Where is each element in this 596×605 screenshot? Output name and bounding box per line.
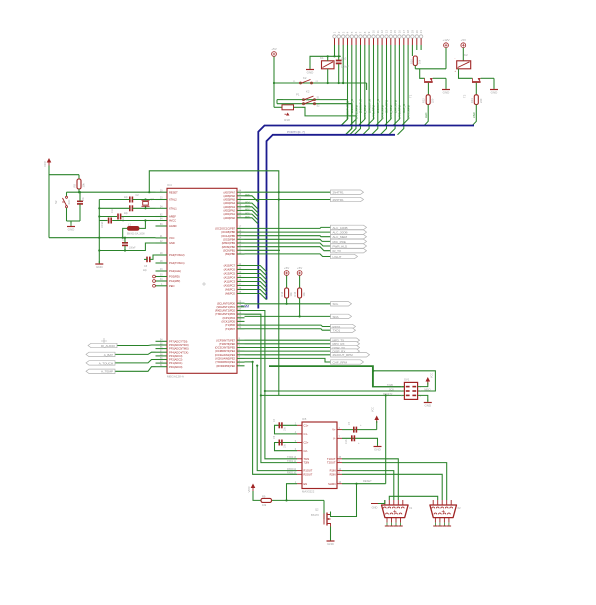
net flag SCL — [331, 302, 352, 306]
stub gnd s2 — [70, 221, 72, 224]
wire PD7 to flag — [245, 329, 331, 330]
svg-text:+5V: +5V — [461, 38, 466, 42]
svg-text:10nF: 10nF — [123, 216, 125, 222]
svg-text:16: 16 — [398, 30, 402, 34]
svg-text:10k: 10k — [417, 59, 421, 64]
svg-text:PG0(RD): PG0(RD) — [169, 275, 180, 279]
svg-text:Q2: Q2 — [315, 508, 319, 512]
svg-text:K2: K2 — [464, 53, 468, 57]
wire JP1 pin8 to PORTA bus — [359, 45, 365, 126]
wire JP1 pin1 to +5V node — [334, 45, 336, 56]
svg-text:R12: R12 — [422, 98, 426, 103]
wire aref right — [122, 216, 156, 218]
svg-text:K2: K2 — [303, 76, 307, 80]
svg-text:LIGHT: LIGHT — [333, 255, 342, 259]
svg-text:R18: R18 — [284, 118, 290, 122]
capacitor C7 — [353, 427, 355, 433]
junction MISO loop — [372, 370, 374, 372]
svg-text:SV1: SV1 — [404, 378, 410, 382]
PA bus ripup wires — [245, 194, 259, 225]
svg-text:V+: V+ — [332, 428, 336, 432]
capacitor C12 — [108, 218, 110, 224]
trimmer R18 — [282, 105, 294, 110]
wire R2IN to X2 — [342, 474, 442, 500]
wire K1 coil bottom — [327, 69, 329, 83]
svg-text:220: 220 — [479, 98, 483, 103]
junction Q2 drain / SHDN — [355, 483, 357, 485]
svg-text:(AD4)PA4: (AD4)PA4 — [224, 201, 236, 205]
svg-text:GND: GND — [96, 265, 104, 269]
wire JP1 pin12 to PORTA bus — [376, 45, 382, 126]
junction rail aref — [98, 215, 100, 217]
net labels on connector wires — [346, 99, 411, 119]
wire C6 bottom — [79, 204, 81, 221]
connector SV1 pads — [401, 387, 422, 398]
svg-text:T2OUT: T2OUT — [327, 461, 336, 465]
net flag ALC_20DB — [331, 230, 367, 234]
wire X1 pin1 to GND — [378, 500, 385, 504]
wire down to GND — [445, 78, 447, 88]
IC4 PF pins — [156, 339, 189, 369]
connector X1 DSUB9 top pins — [385, 500, 403, 505]
wire left rail — [98, 200, 100, 264]
wire JP1 pin16 to PORTA bus — [393, 45, 399, 126]
svg-text:SHDN: SHDN — [328, 482, 335, 486]
svg-text:220: 220 — [431, 98, 435, 103]
wire row to +12V drop — [415, 68, 446, 70]
svg-text:K1: K1 — [306, 98, 310, 102]
wire PB0 LIGHT — [245, 254, 331, 257]
svg-text:PF1(ADC1): PF1(ADC1) — [169, 361, 183, 365]
wire R18 to switch K3 — [294, 106, 303, 108]
svg-text:GND: GND — [68, 228, 76, 232]
wire +5V to K2 coil — [462, 48, 464, 61]
wire R10 bottom — [414, 66, 416, 69]
net flag TXD1 — [331, 328, 356, 332]
wire XTAL1 row — [132, 207, 155, 209]
svg-text:PF7(ADC7/TDI): PF7(ADC7/TDI) — [169, 339, 187, 343]
stub q1t — [145, 199, 147, 202]
wire C10 bottom — [338, 64, 340, 83]
+5V supply symbol P+1 — [272, 52, 277, 57]
wire RESET row — [67, 191, 156, 193]
svg-text:K2: K2 — [306, 90, 310, 94]
transistor T2 — [472, 81, 481, 83]
svg-text:(A14)PC6: (A14)PC6 — [224, 268, 236, 272]
wire vcc arrow stem — [376, 421, 378, 430]
net flag ALC_10DB — [331, 225, 367, 229]
svg-text:2N2OUT_RPM: 2N2OUT_RPM — [333, 353, 354, 357]
wire reset net into row — [278, 392, 280, 395]
svg-text:(ICP3/INT7)PE7: (ICP3/INT7)PE7 — [216, 338, 235, 342]
svg-text:TXD1: TXD1 — [287, 460, 294, 463]
wire PE5 to flag — [245, 347, 331, 349]
relay K1 coil — [322, 61, 335, 69]
net flag A_TEMP — [86, 369, 115, 373]
svg-text:(A10)PC2: (A10)PC2 — [224, 284, 236, 288]
capacitor C10 — [336, 60, 342, 62]
junction reset at IC — [148, 191, 150, 193]
capacitor C9 — [122, 242, 128, 244]
wire C3 left — [99, 207, 130, 209]
svg-text:TX2B: TX2B — [387, 384, 393, 387]
svg-text:+5V: +5V — [297, 266, 302, 270]
svg-text:T2: T2 — [463, 94, 467, 98]
junction PE0 branch — [256, 365, 258, 367]
connector SV1 body — [404, 382, 417, 399]
svg-text:(ICP1)PD4: (ICP1)PD4 — [222, 316, 235, 320]
svg-text:AVCC: AVCC — [169, 219, 176, 223]
capacitor C6 — [77, 200, 83, 202]
capacitor C4 — [278, 422, 280, 428]
svg-text:LAY4_RPM: LAY4_RPM — [380, 104, 384, 119]
svg-text:12: 12 — [380, 30, 384, 34]
wire avcc mid — [112, 220, 145, 222]
junction rail C3 — [98, 207, 100, 209]
svg-text:RAF: RAF — [68, 199, 71, 204]
wire to T1 collector — [420, 69, 425, 79]
svg-text:R13: R13 — [470, 98, 474, 103]
resistor R8 — [77, 179, 81, 189]
wire to trimmer R18 — [274, 106, 282, 108]
svg-text:(MOSI)PB2: (MOSI)PB2 — [222, 245, 236, 249]
wire JP1 pin10 to PORTA bus — [367, 45, 373, 126]
net flag ALC_MEM — [331, 235, 367, 239]
+5V pullup supply 1 — [284, 271, 289, 276]
svg-text:(OC2/OC1C)PB7: (OC2/OC1C)PB7 — [215, 227, 235, 231]
svg-text:(RXD0/PDI)PE0: (RXD0/PDI)PE0 — [216, 364, 235, 368]
stub q1b — [145, 206, 147, 208]
wire Q2 source — [330, 527, 332, 541]
wire PD6 to flag — [245, 325, 331, 326]
svg-text:R2OUT: R2OUT — [304, 472, 313, 476]
svg-text:10k: 10k — [289, 292, 293, 297]
capacitor C5 — [278, 440, 280, 446]
switch S1 — [303, 99, 305, 101]
svg-text:SDA: SDA — [333, 315, 339, 319]
wire JP1 pin21 stub — [420, 45, 422, 50]
switch S2 — [66, 196, 68, 198]
wire T1 base down — [427, 83, 429, 95]
svg-text:(A9)PC1: (A9)PC1 — [225, 288, 236, 292]
svg-text:OUT_RPM: OUT_RPM — [385, 99, 389, 113]
wire S2 top — [66, 192, 68, 196]
junction c9/gnd row — [124, 249, 126, 251]
svg-text:CHF_RPM: CHF_RPM — [333, 360, 348, 364]
svg-text:PF2(ADC2): PF2(ADC2) — [169, 358, 183, 362]
wire PE4 to flag — [245, 350, 331, 352]
svg-text:IR_AUDIO: IR_AUDIO — [101, 344, 116, 348]
svg-text:PF0(ADC0): PF0(ADC0) — [169, 365, 183, 369]
wire R8 bottom — [78, 189, 80, 192]
net flag IR_TX — [331, 249, 367, 253]
svg-text:GND: GND — [491, 91, 499, 95]
wire T1OUT to X1 — [342, 459, 398, 500]
svg-text:ZAR: ZAR — [472, 112, 476, 118]
wire SCK row to SV1 pin3 — [265, 390, 405, 392]
svg-text:R1OUT: R1OUT — [304, 469, 313, 473]
svg-text:C1+: C1+ — [304, 423, 309, 427]
svg-text:PG4(TOSC1): PG4(TOSC1) — [169, 261, 185, 265]
junction reset2 branch — [260, 394, 262, 396]
net flag IR_AUDIO — [88, 343, 117, 347]
wire JP1 pin4 to PORTA bus — [341, 45, 347, 126]
net flag MP3_TX — [331, 338, 360, 342]
wire S2 bottom — [66, 208, 68, 221]
svg-text:P1: P1 — [296, 93, 300, 97]
IC4 PB pins — [215, 226, 244, 256]
wire PE3 wide flag — [245, 354, 331, 356]
wire JP1 pin19 to R10 — [411, 45, 413, 56]
junction K1 bottom / row83 — [327, 82, 329, 84]
IC4 PA pins — [224, 190, 245, 220]
svg-text:VCC: VCC — [169, 236, 175, 240]
bus PORTA horizontal+vertical — [258, 126, 474, 309]
svg-text:+12V: +12V — [442, 38, 449, 42]
wire R8 top — [78, 175, 80, 179]
svg-text:SCK: SCK — [389, 388, 394, 391]
wire aref left — [99, 216, 117, 218]
junction K1 top — [327, 55, 329, 57]
wire JP1 pin2 to K1 node — [338, 45, 340, 56]
wire T2 emitter to GND — [481, 77, 494, 79]
wire PE0 vertical to R1OUT — [257, 366, 297, 471]
svg-text:2N4OUT_R: 2N4OUT_R — [367, 99, 371, 113]
svg-text:(A12)PC4: (A12)PC4 — [224, 276, 236, 280]
svg-text:S2: S2 — [54, 200, 58, 204]
svg-text:(TXD0/PDO)PE1: (TXD0/PDO)PE1 — [215, 360, 235, 364]
relay contact K2 row1 — [300, 82, 302, 84]
transistor Q2 BS170 — [323, 514, 325, 525]
junction pin2 top row — [338, 55, 340, 57]
svg-text:T1: T1 — [409, 94, 413, 98]
wire L1 left — [123, 228, 128, 237]
svg-text:K1: K1 — [320, 56, 324, 60]
wire pullup2 top — [299, 276, 301, 288]
svg-text:VCC: VCC — [431, 373, 434, 378]
wire T2 emitter down — [493, 78, 495, 88]
net flag SDA — [331, 314, 352, 318]
IC4 origin cross — [202, 282, 206, 286]
+12V supply symbol — [444, 43, 449, 48]
jog switch rows — [276, 100, 278, 104]
wire pullup1 top — [286, 276, 288, 288]
wire RESET2 row to SV1 pin5 — [261, 394, 405, 396]
junction sck branch — [264, 390, 266, 392]
wire switch row S1 — [283, 99, 347, 101]
svg-text:2N5TR1: 2N5TR1 — [333, 198, 345, 202]
svg-text:R10: R10 — [409, 59, 413, 64]
wire R1IN to X1 — [342, 471, 394, 500]
wire avcc left — [99, 220, 107, 222]
wire to GND S2 — [67, 220, 81, 222]
wire JP1 pin11 to PORTC bus — [372, 45, 378, 135]
svg-text:R15: R15 — [293, 291, 297, 296]
resistor R15 — [298, 288, 302, 298]
wire gnd pin row — [125, 243, 156, 251]
svg-text:TXD1: TXD1 — [333, 329, 341, 333]
svg-text:PG2(ALE): PG2(ALE) — [169, 269, 181, 273]
connector JP1 pin numbers — [333, 30, 424, 34]
svg-text:R14: R14 — [280, 291, 284, 296]
net flag MP3_RX — [331, 342, 360, 346]
resistor R10 — [413, 56, 417, 66]
connector X1 DSUB9 pin bumps — [383, 507, 404, 514]
svg-text:AGND: AGND — [169, 224, 177, 228]
svg-text:SCL: SCL — [333, 302, 339, 306]
wire JP1 pin13 to PORTC bus — [380, 45, 386, 135]
IC4 left pins — [156, 189, 185, 288]
wire PE1 vertical to R2OUT — [245, 362, 298, 474]
svg-text:GND: GND — [372, 506, 378, 510]
svg-text:C13: C13 — [345, 439, 348, 444]
IC4 PE pins — [215, 338, 245, 368]
svg-text:AREF: AREF — [169, 215, 176, 219]
net flag LIGHT — [331, 254, 358, 258]
svg-text:(XCK0/AIN0)PE2: (XCK0/AIN0)PE2 — [215, 357, 235, 361]
svg-text:R1IN: R1IN — [330, 469, 336, 473]
wire C2 loop — [275, 443, 298, 451]
svg-text:GND: GND — [374, 448, 382, 452]
svg-text:(SCK)PB1: (SCK)PB1 — [223, 248, 236, 252]
svg-text:CHF_RPM: CHF_RPM — [393, 99, 397, 113]
svg-text:RESET: RESET — [363, 479, 372, 483]
wire L1 right — [139, 221, 145, 229]
capacitor C8 tosc — [146, 257, 148, 263]
wire C2 left — [99, 199, 130, 201]
junction c9 top — [124, 237, 126, 239]
wire EN — [287, 484, 298, 501]
wire SCL row — [245, 315, 331, 317]
wire A_TEMP — [115, 367, 156, 372]
svg-text:2N5OUT_R: 2N5OUT_R — [376, 99, 380, 113]
junction +5V / switch row — [273, 82, 275, 84]
svg-text:(T1)PD6: (T1)PD6 — [225, 323, 235, 327]
wire C1 loop — [275, 425, 298, 434]
connector X2 DSUB9 — [430, 505, 457, 518]
svg-text:ALC_MEM: ALC_MEM — [333, 235, 348, 239]
wire JP1 pin18 to PORTA bus — [402, 45, 408, 126]
switch S2 contact — [303, 103, 305, 105]
net flag RXD1 — [331, 324, 356, 328]
wire JP1 pin14 to PORTA bus — [385, 45, 391, 126]
wire SV1 vcc — [418, 383, 428, 387]
svg-text:(XCK1)PD5: (XCK1)PD5 — [221, 320, 235, 324]
wire A_BAT — [115, 352, 156, 354]
svg-text:(OC1A)PB5: (OC1A)PB5 — [221, 234, 235, 238]
wire +12V down — [445, 48, 447, 69]
svg-text:XTAL1: XTAL1 — [169, 206, 177, 210]
ground GND near K1 — [309, 67, 311, 70]
svg-text:(OC0)PB4: (OC0)PB4 — [223, 237, 236, 241]
wire +5V down to R18 — [273, 83, 275, 107]
net flag DISP_TX — [331, 345, 360, 349]
svg-text:MEGA128-A: MEGA128-A — [167, 375, 184, 379]
svg-text:ALC_10DB: ALC_10DB — [333, 226, 348, 230]
junction SCL pullup — [299, 315, 301, 317]
svg-text:PORTC[0..7]: PORTC[0..7] — [287, 130, 305, 134]
svg-text:2N3OUT_R: 2N3OUT_R — [359, 99, 363, 113]
wire JP1 pin9 to PORTC bus — [363, 45, 369, 135]
wire c9 bottom — [99, 246, 125, 251]
junction C10 / row83 — [338, 82, 340, 84]
svg-text:10k: 10k — [82, 183, 86, 188]
svg-text:(SCL/INT0)PD0: (SCL/INT0)PD0 — [217, 301, 236, 305]
svg-text:(SS)PB0: (SS)PB0 — [225, 252, 236, 256]
svg-text:IR_TX: IR_TX — [333, 249, 342, 253]
PC bus ripup wires — [245, 266, 267, 300]
svg-text:C11: C11 — [111, 208, 114, 213]
svg-text:C2+: C2+ — [304, 441, 309, 445]
wire JP1 pin3 down to switch row — [342, 45, 344, 83]
wire JP1 pin15 to PORTC bus — [389, 45, 395, 135]
svg-text:BNX01-SA_1608: BNX01-SA_1608 — [127, 233, 145, 236]
connector X2 DSUB9 bottom pins — [433, 518, 451, 526]
connector JP1 pin pads — [333, 35, 423, 45]
net flag 2N2OUT_RPM — [331, 353, 370, 357]
svg-text:X2: X2 — [457, 506, 461, 510]
wire switch row S2 — [277, 103, 352, 105]
svg-text:PF3(ADC3): PF3(ADC3) — [169, 354, 183, 358]
resistor R13 — [474, 95, 478, 105]
svg-text:T1IN: T1IN — [304, 457, 310, 461]
wire vcc arrow rail down — [48, 175, 50, 238]
svg-text:LAY2_RPM: LAY2_RPM — [363, 104, 367, 119]
crystal Q1 — [143, 202, 149, 206]
svg-text:LAY7_RPM: LAY7_RPM — [406, 104, 410, 119]
junction pin1 top row — [333, 55, 335, 57]
wire R18 row to bus — [302, 107, 356, 135]
junction L1/vcc row — [122, 237, 124, 239]
junction rail c9 — [98, 249, 100, 251]
ground GND Q2 — [330, 538, 332, 541]
svg-text:IC4: IC4 — [167, 183, 172, 187]
svg-text:2N4TR1: 2N4TR1 — [333, 191, 345, 195]
svg-text:100nF: 100nF — [102, 221, 104, 228]
svg-text:100nF: 100nF — [129, 248, 136, 250]
wire SV1 pin6 gnd — [418, 395, 428, 401]
IC4 pin bubbles — [153, 275, 156, 287]
svg-text:GND: GND — [424, 404, 432, 408]
svg-text:(AD1)PA1: (AD1)PA1 — [224, 212, 236, 216]
power VCC arrow left — [47, 158, 52, 163]
wire PA5 to flag — [245, 199, 331, 201]
wire IR_AUDIO — [117, 344, 156, 347]
capacitor C13 — [351, 435, 353, 441]
junction reset2 — [385, 394, 387, 396]
svg-text:MAX3222: MAX3222 — [302, 490, 315, 494]
svg-text:(A15)PC7: (A15)PC7 — [224, 264, 236, 268]
svg-text:PWR_HLD: PWR_HLD — [333, 244, 349, 248]
svg-text:100uF: 100uF — [341, 65, 349, 69]
wire pullup2 bottom — [299, 298, 301, 316]
wire S1 to PORTA bus — [341, 100, 347, 126]
svg-text:T1OUT: T1OUT — [327, 457, 336, 461]
svg-text:(OC3A/AIN1)PE3: (OC3A/AIN1)PE3 — [215, 353, 236, 357]
svg-text:ALC_20DB: ALC_20DB — [333, 231, 348, 235]
wire PD2 down to MAX T1IN — [245, 311, 298, 459]
power VCC arrow SV1 — [426, 377, 431, 382]
svg-text:IC5: IC5 — [302, 417, 307, 421]
net flag A_TOUCH — [86, 361, 115, 365]
svg-text:19: 19 — [411, 30, 415, 34]
wire PE0 row to SV1 — [269, 367, 404, 387]
svg-text:T2IN: T2IN — [304, 461, 310, 465]
svg-text:10k: 10k — [262, 503, 267, 507]
wire JP1 pin7 to PORTC bus — [354, 45, 360, 135]
wire RESET net top route — [149, 171, 278, 392]
net flag MIC_PRE — [331, 239, 367, 243]
